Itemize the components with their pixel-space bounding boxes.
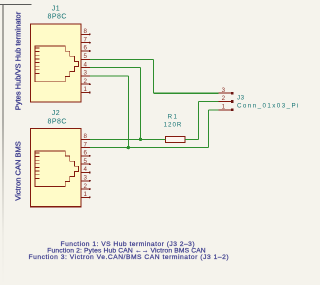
- svg-text:J1: J1: [52, 5, 60, 12]
- J2 pin 2: [81, 183, 91, 190]
- connector J3 pin 2: [218, 95, 233, 103]
- J1 pin 5: [81, 53, 90, 60]
- J1 pin 3: [81, 70, 90, 77]
- svg-text:5: 5: [83, 158, 87, 165]
- svg-text:8P8C: 8P8C: [48, 119, 67, 126]
- J1 pin 8: [81, 28, 91, 35]
- svg-text:2: 2: [83, 78, 87, 85]
- svg-text:6: 6: [83, 150, 87, 157]
- svg-text:6: 6: [83, 45, 87, 52]
- connector J2 body: [30, 129, 81, 207]
- resistor R1: [166, 137, 185, 143]
- svg-text:8: 8: [83, 133, 87, 140]
- svg-text:3: 3: [83, 70, 87, 77]
- svg-text:4: 4: [83, 61, 87, 68]
- wire J2 pin8 to R1: [90, 138, 166, 140]
- svg-text:7: 7: [83, 141, 87, 148]
- connector J1 body: [30, 24, 81, 102]
- svg-text:2: 2: [222, 95, 226, 102]
- J2 pin 7: [81, 141, 90, 148]
- svg-text:1: 1: [222, 104, 226, 111]
- svg-text:R1: R1: [168, 113, 179, 120]
- J2 pin 6: [81, 150, 91, 157]
- wire J1 pin4 horizontal: [90, 67, 141, 69]
- svg-text:8P8C: 8P8C: [48, 14, 67, 21]
- J1 pin 6: [81, 45, 91, 52]
- connector J3 pin 3: [218, 87, 233, 95]
- svg-text:Pytes Hub/VS Hub terminator: Pytes Hub/VS Hub terminator: [14, 11, 23, 110]
- junction J1 pin4 net: [139, 138, 142, 141]
- svg-text:Victron CAN BMS: Victron CAN BMS: [14, 141, 23, 200]
- J2 pin 3: [81, 175, 91, 182]
- svg-text:Conn_01x03_Pin: Conn_01x03_Pin: [237, 103, 300, 110]
- svg-text:J2: J2: [52, 110, 60, 117]
- J2 pin 1: [81, 191, 91, 198]
- wire vertical to J3 pin1: [207, 110, 209, 148]
- svg-text:3: 3: [83, 175, 87, 182]
- svg-text:1: 1: [83, 86, 87, 93]
- svg-text:2: 2: [83, 183, 87, 190]
- wire J1 pin3 horizontal: [90, 75, 129, 77]
- wire to J3 pin1 horizontal: [208, 109, 218, 111]
- J2 pin 5: [81, 158, 91, 165]
- J1 pin 1: [81, 86, 91, 93]
- svg-text:120R: 120R: [164, 121, 183, 128]
- wire J1 pin4 vertical: [139, 68, 141, 140]
- wire J2 pin7 horizontal: [90, 147, 209, 149]
- wire J1 pin3 vertical: [127, 76, 129, 148]
- svg-text:5: 5: [83, 53, 87, 60]
- svg-text:3: 3: [222, 87, 226, 94]
- junction J1 pin3 net: [127, 146, 130, 149]
- wire to J3 pin3: [153, 92, 218, 94]
- wire J1 pin5 vertical: [152, 59, 154, 93]
- J1 pin 4: [81, 61, 90, 68]
- J2 pin 4: [81, 166, 91, 173]
- wire J1 pin5 horizontal: [90, 58, 154, 60]
- wire R1 right: [185, 138, 199, 140]
- svg-text:Function 3: Victron Ve.CAN/BMS: Function 3: Victron Ve.CAN/BMS CAN termi…: [29, 254, 230, 261]
- svg-text:J3: J3: [237, 94, 245, 101]
- svg-text:1: 1: [83, 191, 87, 198]
- svg-text:8: 8: [83, 28, 87, 35]
- svg-text:4: 4: [83, 166, 87, 173]
- svg-text:7: 7: [83, 36, 87, 43]
- J2 pin 8: [81, 133, 90, 140]
- wire vertical to J3 pin2: [197, 102, 199, 140]
- J1 pin 2: [81, 78, 91, 85]
- connector J3 pin 1: [218, 104, 233, 112]
- J1 pin 7: [81, 36, 91, 43]
- wire to J3 pin2 horizontal: [198, 101, 218, 103]
